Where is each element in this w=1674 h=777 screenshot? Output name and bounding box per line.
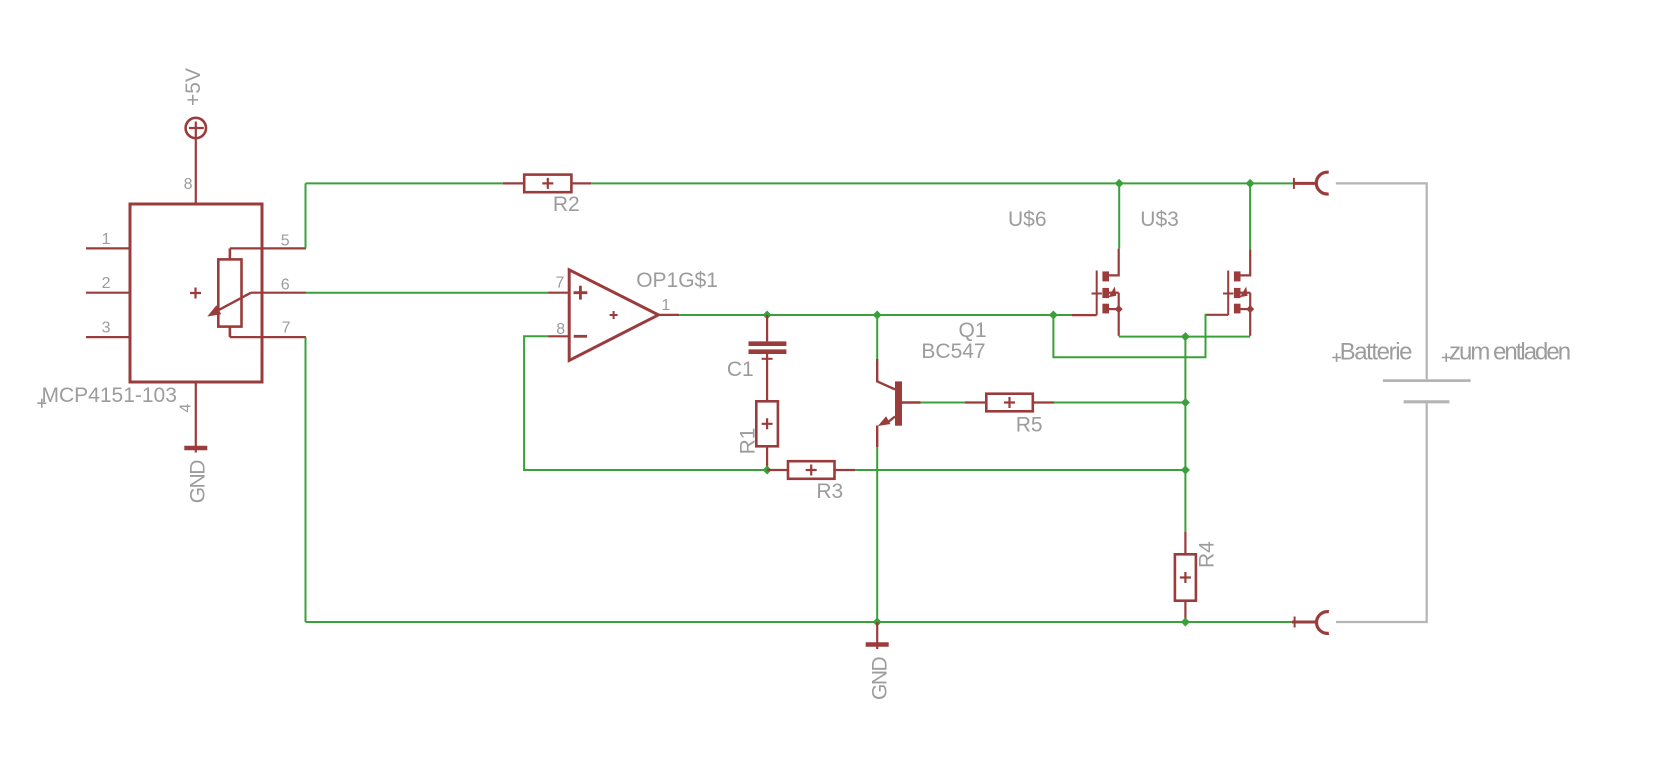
IC pin lines 1,2,3 [86,248,130,337]
potentiometer inside MCP4151 [218,248,251,337]
svg-text:1: 1 [102,231,111,248]
ground GND (IC pin 4) [184,446,207,453]
wire R5 to R4 column [1054,402,1185,404]
IC pin lines 5,6,7 [230,248,306,337]
wire base to R5 [921,402,965,404]
junction R4 / bottom rail [1181,618,1190,627]
wire R3 to R4 column [855,469,1185,471]
svg-text:U$6: U$6 [1008,208,1047,231]
ground GND (bottom) [866,622,889,649]
connector pinhead top arc [1316,172,1328,194]
svg-text:OP1G$1: OP1G$1 [636,269,718,292]
svg-text:2: 2 [102,275,111,292]
resistor R2 [503,175,591,193]
op-amp OP1G$1 [548,270,679,361]
junction emitter/GND [873,618,882,627]
svg-text:C1: C1 [727,358,754,381]
svg-text:R4: R4 [1195,541,1218,568]
wire pin7 drop to bottom rail [305,337,307,622]
mosfet U$6 [1072,249,1123,336]
svg-text:5: 5 [281,233,290,250]
junction top rail / U$3 drain [1246,179,1255,188]
wire U$3 drain drop [1249,183,1251,249]
capacitor C1 [749,315,787,401]
Batterie origin cross [1332,353,1341,362]
battery wiring bottom [1336,403,1427,622]
svg-text:1: 1 [661,297,670,314]
junction sources / R4 column [1181,332,1190,341]
wire collector drop [876,315,878,359]
svg-text:GND: GND [868,657,891,701]
wire bottom rail [306,621,1293,623]
junction R5 / R4 column [1181,398,1190,407]
resistor R3 [767,461,855,479]
connector pinhead bottom lead [1292,621,1317,624]
wire top rail left segment [306,182,503,184]
wire emitter to bottom rail [876,447,878,622]
supply +5V symbol [186,118,206,138]
wire sources line [1119,336,1251,338]
junction output/C1 [763,311,772,320]
svg-text:R3: R3 [816,480,843,503]
IC origin cross [190,288,201,299]
wire op-amp pin8 feedback [524,336,767,470]
wire gate stub U$6 [1053,314,1072,316]
svg-text:+5V: +5V [182,68,205,106]
svg-text:BC547: BC547 [921,340,985,363]
wire pin6 to op-amp [306,292,549,294]
transistor Q1 BC547 [877,359,921,447]
part name origin cross [37,399,46,408]
wire top rail right segment [591,182,1293,184]
junction top rail / U$6 drain [1115,179,1124,188]
svg-text:4: 4 [178,404,195,413]
battery long plate [1383,379,1471,382]
svg-text:Q1: Q1 [959,319,987,342]
connector pinhead top lead [1293,182,1317,185]
svg-text:Batterie: Batterie [1340,339,1413,366]
IC pin line 4 [195,382,197,446]
battery short plate [1404,400,1450,403]
junction output/gates [1049,311,1058,320]
junction R3 line / R4 column [1181,466,1190,475]
wire pin8 to supply [195,138,197,204]
IC MCP4151-103 body [130,204,262,382]
zum entladen origin cross [1442,353,1451,362]
mosfet U$3 [1207,249,1255,336]
svg-text:7: 7 [555,275,564,292]
Q1 emitter arrowhead [878,416,891,426]
battery wiring top [1336,183,1427,379]
connector pinhead bottom origin tick [1294,617,1296,628]
junction R1/R3/feedback [763,466,772,475]
resistor R1 [756,401,778,470]
svg-text:MCP4151-103: MCP4151-103 [42,384,177,407]
svg-text:R1: R1 [736,428,759,455]
svg-text:R5: R5 [1016,413,1043,436]
svg-text:zum entladen: zum entladen [1449,339,1570,366]
svg-text:8: 8 [184,176,193,193]
svg-text:7: 7 [282,320,291,337]
resistor R5 [965,394,1054,412]
svg-text:GND: GND [187,460,210,504]
svg-text:8: 8 [556,321,565,338]
potentiometer wiper arrowhead [207,305,221,316]
wire op-amp output net [679,314,1053,316]
svg-text:U$3: U$3 [1140,208,1179,231]
svg-text:3: 3 [102,320,111,337]
wire U$6 drain drop [1118,183,1120,248]
junction output/collector [873,311,882,320]
wire gate routing to U$3 [1053,315,1206,358]
connector pinhead top origin tick [1293,178,1295,189]
svg-text:R2: R2 [553,193,580,216]
resistor R4 [1175,532,1196,622]
connector pinhead bottom arc [1317,612,1329,634]
wire pin5 drop [305,183,307,248]
svg-text:6: 6 [281,277,290,294]
wire R4 column [1184,337,1186,532]
